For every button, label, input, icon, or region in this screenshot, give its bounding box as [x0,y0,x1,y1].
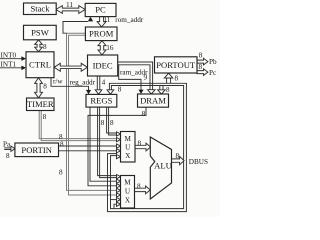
svg-text:8: 8 [138,140,142,148]
svg-text:PC: PC [95,5,106,15]
svg-text:8: 8 [175,74,179,82]
wire: ram_addr from IDEC to DRAM [119,65,141,91]
ALU shape [150,137,171,199]
svg-text:8: 8 [59,169,63,177]
wire: Pa input [4,147,11,149]
svg-text:8: 8 [176,152,180,160]
arrow: head up into PORTOUT from DBUS [164,73,172,78]
arrow: filled head reg_addr into REGS [86,90,91,94]
svg-text:DRAM: DRAM [140,96,166,106]
svg-text:r/w: r/w [53,78,63,86]
svg-text:Pc: Pc [209,69,216,77]
arrow: MUX1 input heads [117,132,121,136]
arrow: head into REGS from IDEC (4) [95,90,102,94]
svg-text:reg_addr: reg_addr [70,79,96,87]
arrow: Pc output [197,69,208,76]
svg-text:Pa: Pa [3,141,11,149]
svg-text:IDEC: IDEC [93,60,113,70]
wire: PORTIN output to MUX1 [59,145,118,147]
wire: DBUS branch to MUX2 input 6 [111,199,118,201]
svg-text:8: 8 [199,63,203,71]
wire: PROM immediate bus upper line to MUX2 [67,33,118,190]
arrow: filled head INT0 [21,56,26,61]
box TIMER [27,98,55,111]
arrow: head into DRAM from IDEC pair [148,90,156,94]
box PORTOUT [155,57,198,73]
svg-text:11: 11 [66,1,73,9]
wire: DRAM data output loop to MUX2 [88,107,146,186]
svg-text:U: U [125,144,131,152]
svg-text:8: 8 [60,140,64,148]
wire: REGS left output to MUX2 [90,107,117,181]
svg-text:PORTOUT: PORTOUT [156,60,196,70]
svg-text:8: 8 [142,110,146,118]
arrow: MUX2 input heads [117,175,121,179]
box REGS [86,94,117,107]
svg-text:16: 16 [106,44,114,52]
wire: IDEC reg select shaft [96,76,98,90]
wire: DBUS main loop outer line [108,83,187,211]
svg-text:rom_addr: rom_addr [115,16,144,24]
arrow: CTRL-IDEC bidirectional [54,63,87,71]
svg-text:DBUS: DBUS [189,158,208,166]
wire: REGS port A bus to MUX2 [98,107,117,176]
box DRAM [138,94,169,107]
svg-text:Stack: Stack [30,4,50,14]
wire: DBUS branch to MUX2 input 7 [114,204,117,208]
svg-text:8: 8 [43,82,47,90]
wire: INT1 input [0,67,24,69]
wire: DBUS write shaft into DRAM [159,86,161,90]
svg-text:8: 8 [101,119,105,127]
wire: r/w + reg_addr from CTRL to REGS [51,78,89,91]
arrow: head into REGS from DBUS (8) [107,90,114,94]
svg-text:X: X [125,197,131,205]
wire: INT0 input [0,58,24,60]
svg-text:9: 9 [144,74,148,82]
arrow: MUX2 output to ALU 8 [135,186,151,194]
arrow: filled head Pa into PORTIN [11,146,15,151]
svg-text:8: 8 [43,43,47,51]
svg-text:8: 8 [43,113,47,121]
svg-text:X: X [125,152,131,160]
svg-text:8: 8 [6,152,10,160]
svg-text:8: 8 [110,119,114,127]
svg-text:ALU: ALU [154,161,172,171]
box PORTIN [15,143,59,157]
svg-text:11: 11 [103,16,110,24]
wire: TIMER output bus to MUX1 [39,111,117,139]
svg-text:8: 8 [137,183,141,191]
box PSW [24,25,57,40]
svg-text:8: 8 [166,86,170,94]
box Stack [24,3,57,15]
arrow: ALU output to DBUS 8 [172,156,185,164]
svg-text:M: M [124,135,131,143]
box MUX1 [121,132,136,163]
arrow: CTRL-TIMER bidirectional 8 [35,78,43,98]
arrow: filled head into PC (jump address) [88,17,93,22]
arrow: Pb output [197,58,208,65]
svg-text:PSW: PSW [31,27,50,37]
arrow: Stack-PC bidirectional 11 [56,6,85,14]
arrow: MUX1 output to ALU 8 [135,143,151,151]
svg-text:CTRL: CTRL [29,60,51,70]
wire: DBUS shaft up into PORTOUT [166,78,168,83]
svg-text:8: 8 [118,86,122,94]
svg-text:REGS: REGS [90,96,112,106]
wire: DBUS main loop inner line [111,86,184,209]
arrow: PC to PROM rom_addr [97,17,106,27]
box PC [85,3,116,16]
svg-text:INT0: INT0 [1,52,17,60]
svg-text:U: U [125,188,131,196]
wire: REGS port B bus to MUX1 [107,107,117,133]
arrow: head into DRAM from DBUS [158,90,166,94]
svg-text:INT1: INT1 [1,60,17,68]
wire: PROM immediate bus lower line to MUX2 [69,35,118,195]
box MUX2 [121,176,135,209]
svg-text:4: 4 [102,78,106,86]
box PROM [85,27,117,41]
wire: IDEC to DRAM data pair [118,62,153,90]
box CTRL [26,52,54,78]
svg-text:PROM: PROM [89,29,114,39]
svg-text:8: 8 [199,51,203,59]
box IDEC [88,55,118,76]
svg-text:PORTIN: PORTIN [21,145,52,155]
arrow: filled head ram_addr into DRAM [138,90,143,94]
svg-text:TIMER: TIMER [27,99,54,109]
wire: jump address feed into PC [63,22,88,34]
svg-text:Pb: Pb [209,58,217,66]
arrow: PROM-IDEC bidirectional 16 [98,41,106,55]
arrow: filled head INT1 [21,66,26,71]
svg-text:M: M [124,179,131,187]
arrow: PSW-CTRL bidirectional 8 [35,40,43,52]
